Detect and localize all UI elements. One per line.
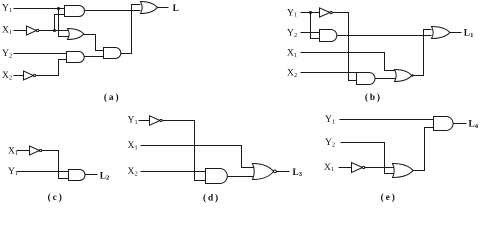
wire AND output to NOR (d) bbox=[228, 176, 255, 178]
AND gate 1 (a) bbox=[65, 6, 85, 17]
wire X1-bar to OR (e) bbox=[365, 167, 395, 169]
svg-text:(c): (c) bbox=[48, 192, 64, 203]
wire X2 to inverter (a) bbox=[14, 75, 24, 77]
wire AND4 output up to OR5 (a) bbox=[121, 5, 141, 54]
wire X1 to inverter (e) bbox=[339, 167, 352, 169]
AND gate 1 (b) bbox=[320, 30, 337, 42]
svg-text:(b): (b) bbox=[365, 92, 382, 103]
wire Y2 to AND1 (b) bbox=[301, 32, 320, 34]
wire OR output up to AND (e) bbox=[414, 128, 434, 171]
inverter on Y1 (b) bbox=[320, 8, 331, 17]
wire output L3 (d) bbox=[277, 171, 290, 173]
wire X1-bar to OR2 (a) bbox=[39, 30, 70, 32]
wire Y1 to inverter (b) bbox=[301, 12, 320, 14]
inverter on X1 (e) bbox=[352, 163, 363, 173]
wire X1 to inverter (c) bbox=[17, 150, 30, 152]
OR gate 5 (a) bbox=[141, 2, 158, 14]
inverter on X1 (a) bbox=[27, 26, 37, 35]
inverter bubble on Y1 (d) bbox=[160, 119, 162, 121]
wire AND3 output to AND4 (a) bbox=[85, 56, 104, 58]
wire output L1 (b) bbox=[450, 32, 462, 34]
wire Y1 down to AND1 (b) bbox=[311, 13, 320, 39]
NOR output bubble (d) bbox=[274, 170, 277, 173]
wire X1 to lower OR (b) bbox=[301, 53, 397, 71]
wire X1 to NOR (d) bbox=[141, 146, 255, 168]
wire Y1 to AND (e) bbox=[340, 119, 434, 121]
inverter on X2 (a) bbox=[24, 71, 34, 80]
AND gate (d) bbox=[206, 169, 228, 184]
junction dot on Y1 (a) bbox=[57, 7, 60, 10]
inverter on X1 (c) bbox=[30, 146, 40, 155]
AND gate 3 (a) bbox=[67, 52, 85, 63]
wire output L2 (c) bbox=[85, 174, 98, 176]
wire AND2 output to lower OR (b) bbox=[375, 78, 397, 80]
AND gate (c) bbox=[69, 170, 86, 181]
junction dot on Y1 (b) bbox=[309, 11, 312, 14]
AND gate (e) bbox=[434, 117, 454, 131]
wire X2 to AND2 (b) bbox=[301, 72, 357, 74]
inverter bubble on Y1 (b) bbox=[330, 11, 332, 13]
wire Y1 horizontal (a) bbox=[14, 8, 65, 10]
wire X1-bar up to AND1 (a) bbox=[55, 15, 65, 31]
OR gate 2 (a) bbox=[68, 29, 84, 40]
svg-text:L: L bbox=[173, 4, 179, 14]
lower OR gate (b) bbox=[395, 70, 412, 82]
wire Y1-bar down to AND (d) bbox=[163, 121, 206, 181]
wire lower OR output up to final OR (b) bbox=[414, 30, 432, 76]
wire OR2 output to AND4 (a) bbox=[84, 35, 104, 51]
inverter bubble on X1 (a) bbox=[37, 29, 39, 31]
junction dot at lower OR output (b) bbox=[411, 74, 413, 76]
NOR gate body (d) bbox=[253, 164, 274, 180]
OR gate (e) bbox=[393, 164, 414, 178]
svg-text:(e): (e) bbox=[381, 192, 397, 203]
final OR gate (b) bbox=[432, 27, 450, 39]
inverter bubble on X2 (a) bbox=[34, 74, 36, 76]
wire output L4 (e) bbox=[454, 123, 467, 125]
svg-text:(d): (d) bbox=[203, 193, 220, 204]
wire Y1 down to OR2 (a) bbox=[59, 9, 70, 37]
wire AND1 output to final OR (b) bbox=[337, 35, 432, 37]
wire X2 to AND (d) bbox=[141, 171, 206, 173]
wire output L (a) bbox=[158, 7, 169, 9]
wire Y1-bar down to AND2 (b) bbox=[333, 13, 357, 81]
inverter bubble on X1 (c) bbox=[40, 149, 42, 151]
wire Y1 to inverter (d) bbox=[139, 120, 150, 122]
wire Y2 down to OR (e) bbox=[341, 143, 395, 174]
wire X2-bar to AND3 (a) bbox=[36, 60, 67, 76]
inverter on Y1 (d) bbox=[150, 116, 161, 125]
AND gate 2 (b) bbox=[357, 73, 376, 85]
wire AND1 output to OR5 (a) bbox=[85, 10, 141, 12]
wire Y1 to AND (c) bbox=[17, 171, 69, 173]
inverter bubble on X1 (e) bbox=[363, 166, 365, 168]
AND gate 4 (a) bbox=[104, 48, 121, 59]
wire X1 to inverter (a) bbox=[14, 30, 27, 32]
junction dot on X1-bar (a) bbox=[53, 29, 56, 32]
wire Y2 to AND3 (a) bbox=[14, 53, 67, 55]
wire X1-bar down to AND (c) bbox=[42, 151, 69, 179]
svg-text:(a): (a) bbox=[104, 92, 121, 103]
